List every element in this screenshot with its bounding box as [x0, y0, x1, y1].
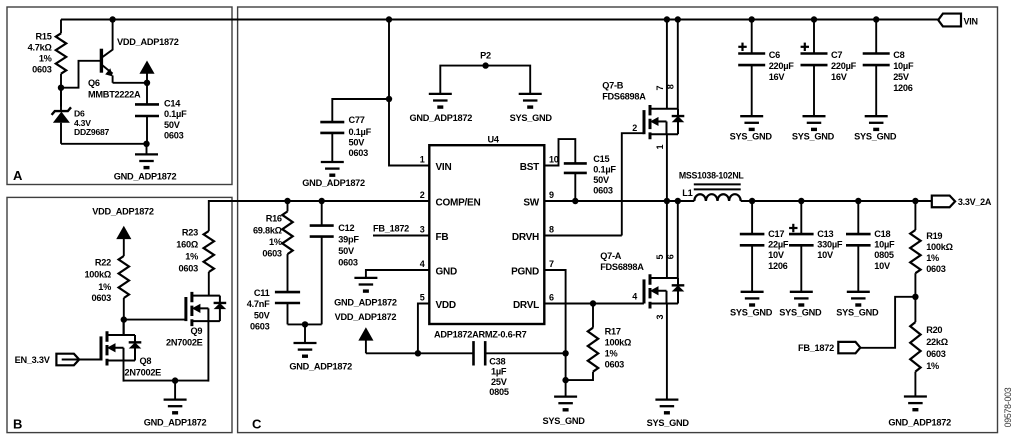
- capacitor C17: [751, 201, 753, 234]
- svg-text:Q8: Q8: [140, 356, 152, 366]
- capacitor C8: [875, 20, 877, 54]
- svg-text:R16: R16: [266, 213, 282, 223]
- wire SW net: [544, 200, 694, 202]
- node VIN/C77 junction: [386, 96, 392, 102]
- node SW-C15 junction: [572, 198, 578, 204]
- svg-text:39pF: 39pF: [338, 235, 359, 245]
- svg-text:09578-003: 09578-003: [1003, 387, 1013, 427]
- svg-text:SYS_GND: SYS_GND: [647, 418, 690, 428]
- node DRVL-R17 junction: [590, 300, 596, 306]
- output flag 3.3V_2A: [932, 196, 955, 208]
- ground GND_ADP1872 (C77): [321, 161, 344, 163]
- svg-text:10V: 10V: [817, 250, 834, 260]
- node C14 bottom junction: [143, 141, 149, 147]
- ground GND_ADP1872 (P2 left): [429, 93, 452, 95]
- svg-text:GND_ADP1872: GND_ADP1872: [114, 172, 177, 182]
- svg-text:2: 2: [420, 190, 425, 200]
- svg-text:VDD_ADP1872: VDD_ADP1872: [92, 207, 154, 217]
- node SW-Q7 junction b: [675, 198, 681, 204]
- svg-text:L1: L1: [682, 188, 692, 198]
- svg-text:1%: 1%: [185, 251, 198, 261]
- node rail-Q7B drain8 junction: [675, 16, 681, 22]
- wire DRVL to Q7-A gate: [544, 303, 644, 305]
- svg-text:C12: C12: [338, 223, 354, 233]
- svg-text:0603: 0603: [32, 65, 52, 75]
- svg-text:FDS6898A: FDS6898A: [602, 92, 646, 102]
- svg-text:10V: 10V: [874, 261, 891, 271]
- svg-text:6: 6: [549, 293, 554, 303]
- node out-C17 junction: [749, 198, 755, 204]
- svg-text:1µF: 1µF: [491, 367, 507, 377]
- svg-text:VIN: VIN: [964, 17, 978, 27]
- svg-text:MSS1038-102NL: MSS1038-102NL: [679, 170, 745, 180]
- svg-text:C18: C18: [874, 229, 890, 239]
- svg-text:25V: 25V: [893, 72, 910, 82]
- svg-text:VDD_ADP1872: VDD_ADP1872: [117, 37, 179, 47]
- transistor Q8 2N7002E: [100, 336, 103, 360]
- svg-text:0805: 0805: [489, 387, 509, 397]
- svg-text:A: A: [13, 168, 23, 183]
- svg-text:R20: R20: [926, 325, 942, 335]
- input flag FB_1872: [838, 342, 860, 353]
- capacitor C14: [146, 83, 148, 105]
- power VDD_ADP1872 (box A): [140, 62, 153, 74]
- svg-text:C: C: [252, 417, 262, 432]
- wire Q7-B drain pin8: [677, 20, 679, 109]
- svg-text:2N7002E: 2N7002E: [166, 338, 203, 348]
- svg-text:25V: 25V: [491, 377, 508, 387]
- transistor Q7-B FDS6898A: [643, 110, 646, 134]
- node rail-Q6 collector junction: [109, 16, 115, 22]
- wire R22 bottom: [123, 298, 125, 335]
- wire 3.3V output net: [741, 200, 932, 202]
- node B ground junction: [172, 377, 178, 383]
- wire COMP/EN net: [240, 200, 429, 202]
- svg-text:1%: 1%: [926, 253, 939, 263]
- input flag EN_3.3V: [56, 354, 79, 366]
- svg-text:FB_1872: FB_1872: [798, 343, 834, 353]
- svg-text:10µF: 10µF: [893, 61, 914, 71]
- ground SYS_GND (C7): [803, 115, 826, 117]
- svg-text:GND_ADP1872: GND_ADP1872: [409, 113, 472, 123]
- panel box B: [7, 197, 232, 432]
- svg-text:220µF: 220µF: [831, 61, 857, 71]
- svg-text:C77: C77: [349, 115, 365, 125]
- node out-R19 junction: [912, 198, 918, 204]
- svg-text:GND: GND: [436, 267, 458, 278]
- svg-text:50V: 50V: [593, 175, 610, 185]
- svg-text:50V: 50V: [164, 120, 181, 130]
- node VDD/C38 junction: [415, 350, 421, 356]
- svg-text:4: 4: [420, 259, 425, 269]
- svg-text:8: 8: [666, 84, 676, 89]
- svg-text:1: 1: [420, 155, 425, 165]
- svg-text:SW: SW: [523, 198, 539, 209]
- resistor R17: [592, 304, 594, 328]
- input flag VIN: [938, 14, 961, 27]
- svg-text:160Ω: 160Ω: [176, 239, 198, 249]
- svg-text:100kΩ: 100kΩ: [605, 338, 632, 348]
- svg-text:U4: U4: [488, 135, 500, 145]
- wire R17 bottom: [566, 372, 593, 380]
- wire VDD/VIN top rail: [61, 19, 938, 21]
- svg-text:7: 7: [549, 259, 554, 269]
- zener diode D6: [60, 88, 62, 111]
- ground SYS_GND (Q7-A source): [655, 398, 678, 400]
- svg-text:7: 7: [655, 86, 665, 91]
- svg-text:0603: 0603: [605, 360, 625, 370]
- transistor Q7-A FDS6898A: [643, 279, 646, 303]
- svg-text:R22: R22: [95, 257, 111, 267]
- svg-text:0603: 0603: [926, 264, 946, 274]
- svg-text:0805: 0805: [874, 250, 894, 260]
- panel box C: [238, 7, 998, 433]
- svg-text:ADP1872ARMZ-0.6-R7: ADP1872ARMZ-0.6-R7: [434, 329, 527, 339]
- inductor L1 core: [694, 183, 741, 185]
- svg-text:50V: 50V: [349, 137, 366, 147]
- svg-text:1%: 1%: [605, 349, 618, 359]
- svg-text:330µF: 330µF: [817, 240, 843, 250]
- inductor L1: [694, 194, 740, 201]
- node R19/R20/FB junction: [912, 294, 918, 300]
- ground SYS_GND (C18): [847, 291, 870, 293]
- svg-text:1206: 1206: [893, 83, 913, 93]
- svg-text:1: 1: [655, 145, 665, 150]
- wire R15 top lead: [60, 20, 62, 34]
- node SW-Q7 junction a: [664, 198, 670, 204]
- node R22/Q8 drain/Q9 gate junction: [121, 316, 127, 322]
- wire Q8 drain up: [123, 320, 125, 335]
- svg-text:69.8kΩ: 69.8kΩ: [253, 226, 282, 236]
- wire FB tap: [860, 297, 915, 348]
- svg-text:PGND: PGND: [511, 267, 539, 278]
- power VDD_ADP1872 (box B): [117, 227, 130, 239]
- ground GND_ADP1872 (R20): [904, 395, 927, 397]
- capacitor C6: [751, 20, 753, 54]
- svg-text:4.7nF: 4.7nF: [247, 299, 270, 309]
- wire D6 to C14 bottom: [61, 143, 147, 145]
- wire comp network bottom: [288, 323, 322, 325]
- svg-text:C11: C11: [254, 288, 270, 298]
- wire R23 top to COMP line: [209, 201, 240, 231]
- svg-text:SYS_GND: SYS_GND: [792, 132, 835, 142]
- svg-text:0603: 0603: [262, 249, 282, 259]
- op-amp U4 ADP1872 body: [429, 145, 544, 324]
- resistor R16: [282, 211, 292, 254]
- svg-text:22µF: 22µF: [768, 240, 789, 250]
- svg-text:C8: C8: [893, 50, 904, 60]
- capacitor C11: [275, 291, 300, 294]
- wire R23 bottom to Q9 drain: [208, 272, 210, 296]
- svg-text:FB_1872: FB_1872: [373, 224, 409, 234]
- svg-text:GND_ADP1872: GND_ADP1872: [144, 418, 207, 428]
- svg-text:0.1µF: 0.1µF: [349, 127, 372, 137]
- resistor R20: [910, 322, 920, 372]
- svg-text:0603: 0603: [250, 322, 270, 332]
- svg-text:10µF: 10µF: [874, 240, 895, 250]
- node emitter/VDD/C14 junction: [144, 80, 150, 86]
- wire Q9 gate from junction: [124, 319, 186, 321]
- svg-text:10V: 10V: [768, 250, 785, 260]
- svg-text:GND_ADP1872: GND_ADP1872: [888, 417, 951, 427]
- resistor R19: [914, 201, 916, 230]
- wire Q7-A drain pin5: [666, 201, 668, 278]
- wire C77 branch: [332, 99, 389, 122]
- svg-text:1%: 1%: [269, 237, 282, 247]
- wire GND pin 4: [366, 270, 429, 278]
- svg-text:2N7002E: 2N7002E: [125, 368, 162, 378]
- svg-text:16V: 16V: [769, 72, 786, 82]
- svg-text:1206: 1206: [768, 261, 788, 271]
- svg-text:SYS_GND: SYS_GND: [543, 416, 586, 426]
- svg-text:COMP/EN: COMP/EN: [436, 198, 481, 209]
- svg-text:GND_ADP1872: GND_ADP1872: [302, 178, 365, 188]
- wire DRVH to Q7-B gate: [544, 235, 622, 237]
- svg-text:1%: 1%: [39, 54, 52, 64]
- svg-text:SYS_GND: SYS_GND: [836, 307, 879, 317]
- svg-text:C6: C6: [769, 50, 780, 60]
- capacitor C13: [800, 201, 802, 234]
- ground SYS_GND (C6): [740, 115, 763, 117]
- svg-text:GND_ADP1872: GND_ADP1872: [289, 362, 352, 372]
- svg-text:R17: R17: [605, 327, 621, 337]
- svg-text:C15: C15: [593, 154, 609, 164]
- wire Q7-B source pin1: [666, 134, 668, 201]
- svg-text:8: 8: [549, 225, 554, 235]
- svg-text:0603: 0603: [926, 349, 946, 359]
- node COMP-R16 junction: [284, 198, 290, 204]
- svg-text:5: 5: [655, 255, 665, 260]
- svg-text:16V: 16V: [831, 72, 848, 82]
- svg-text:C38: C38: [489, 357, 505, 367]
- node rail-VIN branch junction: [386, 16, 392, 22]
- svg-text:SYS_GND: SYS_GND: [854, 132, 897, 142]
- svg-text:4.7kΩ: 4.7kΩ: [28, 43, 52, 53]
- wire Q6 base: [61, 61, 100, 88]
- svg-text:22kΩ: 22kΩ: [926, 337, 948, 347]
- wire VIN stub: [931, 19, 938, 21]
- svg-text:VDD: VDD: [436, 300, 456, 311]
- power VDD_ADP1872 (pin 5): [359, 328, 372, 340]
- svg-text:GND_ADP1872: GND_ADP1872: [334, 298, 397, 308]
- ground GND_ADP1872 (comp network): [304, 324, 306, 342]
- svg-text:SYS_GND: SYS_GND: [779, 307, 822, 317]
- ground SYS_GND (C17): [741, 291, 764, 293]
- svg-text:0603: 0603: [349, 148, 369, 158]
- ground SYS_GND (C8): [865, 115, 888, 117]
- svg-text:DRVL: DRVL: [513, 300, 539, 311]
- wire Q6 emitter to VDD/C14 node: [113, 82, 147, 84]
- node R15/D6/base junction: [58, 85, 64, 91]
- wire R16-C11: [287, 254, 289, 292]
- svg-text:SYS_GND: SYS_GND: [730, 132, 773, 142]
- wire Q7-A source pin3: [666, 304, 668, 400]
- svg-text:FB: FB: [436, 232, 449, 243]
- jumper P2 wire: [440, 66, 530, 94]
- capacitor C12: [321, 201, 323, 226]
- svg-text:100kΩ: 100kΩ: [926, 242, 953, 252]
- svg-text:10: 10: [549, 155, 559, 165]
- node rail-Q7B drain7 junction: [664, 16, 670, 22]
- svg-text:DDZ9687: DDZ9687: [74, 127, 109, 137]
- svg-text:50V: 50V: [254, 310, 271, 320]
- wire Q9 source down: [207, 321, 209, 382]
- svg-text:R23: R23: [182, 227, 198, 237]
- svg-text:P2: P2: [480, 50, 491, 60]
- wire BST to C15: [544, 139, 575, 165]
- node P2 junction: [482, 62, 488, 68]
- ground GND_ADP1872 (box B): [174, 381, 176, 400]
- ground GND_ADP1872 (box A): [146, 144, 148, 154]
- svg-text:C14: C14: [164, 98, 181, 108]
- svg-text:Q6: Q6: [88, 78, 100, 88]
- svg-text:6: 6: [666, 254, 676, 259]
- resistor R23: [204, 231, 214, 272]
- svg-text:SYS_GND: SYS_GND: [510, 113, 553, 123]
- svg-text:Q9: Q9: [191, 326, 203, 336]
- capacitor C15: [564, 162, 587, 165]
- svg-text:VIN: VIN: [436, 162, 452, 173]
- svg-text:50V: 50V: [338, 246, 355, 256]
- svg-text:4: 4: [632, 292, 637, 302]
- svg-text:5: 5: [420, 293, 425, 303]
- wire Q8 source down: [123, 361, 125, 382]
- wire VIN branch: [389, 20, 429, 166]
- svg-text:R15: R15: [35, 32, 51, 42]
- svg-text:0603: 0603: [179, 263, 199, 273]
- svg-text:C7: C7: [831, 50, 842, 60]
- svg-text:MMBT2222A: MMBT2222A: [88, 90, 141, 100]
- svg-text:1%: 1%: [98, 282, 111, 292]
- svg-text:0.1µF: 0.1µF: [164, 109, 187, 119]
- svg-text:3: 3: [655, 315, 665, 320]
- wire PGND drop: [544, 270, 565, 396]
- svg-text:EN_3.3V: EN_3.3V: [15, 355, 51, 365]
- svg-text:FDS6898A: FDS6898A: [600, 262, 644, 272]
- svg-text:BST: BST: [520, 162, 539, 173]
- svg-text:3.3V_2A: 3.3V_2A: [958, 197, 992, 207]
- svg-text:C17: C17: [768, 229, 784, 239]
- svg-text:Q7-B: Q7-B: [602, 80, 624, 90]
- svg-text:3: 3: [420, 225, 425, 235]
- node out-C18 junction: [855, 198, 861, 204]
- node PGND-R17 junction: [562, 377, 568, 383]
- ground SYS_GND (C13): [790, 291, 813, 293]
- svg-text:B: B: [13, 417, 22, 432]
- svg-text:2: 2: [632, 123, 637, 133]
- node PGND-C38 junction: [562, 350, 568, 356]
- node rail-C6 junction: [749, 16, 755, 22]
- svg-text:0603: 0603: [338, 258, 358, 268]
- ground SYS_GND (P2 right): [519, 93, 542, 95]
- svg-text:Q7-A: Q7-A: [600, 251, 622, 261]
- transistor Q6: [100, 49, 103, 73]
- wire FB net: [373, 235, 429, 237]
- svg-text:0.1µF: 0.1µF: [593, 165, 616, 175]
- ground GND_ADP1872 (pin 4): [354, 277, 377, 279]
- svg-text:0603: 0603: [92, 293, 112, 303]
- node COMP-C12 junction: [319, 198, 325, 204]
- svg-text:100kΩ: 100kΩ: [84, 270, 111, 280]
- svg-text:220µF: 220µF: [769, 61, 795, 71]
- svg-text:0603: 0603: [593, 186, 613, 196]
- transistor Q9 2N7002E: [184, 297, 187, 321]
- svg-text:9: 9: [549, 190, 554, 200]
- svg-text:0603: 0603: [164, 131, 184, 141]
- svg-text:VDD_ADP1872: VDD_ADP1872: [335, 312, 397, 322]
- capacitor C18: [857, 201, 859, 234]
- node rail-C7 junction: [811, 16, 817, 22]
- svg-text:DRVH: DRVH: [512, 232, 539, 243]
- svg-text:R19: R19: [926, 231, 942, 241]
- resistor R15: [56, 33, 66, 73]
- wire R16 top lead: [287, 201, 289, 211]
- ground SYS_GND (PGND): [554, 395, 577, 397]
- node comp network gnd junction: [302, 321, 308, 327]
- panel box A: [7, 7, 232, 185]
- wire R15 bottom to D6: [60, 74, 62, 107]
- capacitor C77: [320, 121, 344, 124]
- node rail-C8 junction: [873, 16, 879, 22]
- capacitor C38: [472, 341, 475, 365]
- wire Q7-A drain pin6: [677, 201, 679, 278]
- svg-text:1%: 1%: [926, 361, 939, 371]
- node out-C13 junction: [798, 198, 804, 204]
- svg-text:C13: C13: [817, 229, 833, 239]
- resistor R22: [119, 256, 129, 298]
- wire Q8/Q9 source rail: [124, 380, 209, 382]
- wire VDD pin5 drop: [418, 304, 429, 354]
- svg-text:SYS_GND: SYS_GND: [730, 307, 773, 317]
- wire Q7-B drain pin7: [666, 20, 668, 109]
- wire VDD to C38: [366, 352, 474, 354]
- capacitor C7: [813, 20, 815, 54]
